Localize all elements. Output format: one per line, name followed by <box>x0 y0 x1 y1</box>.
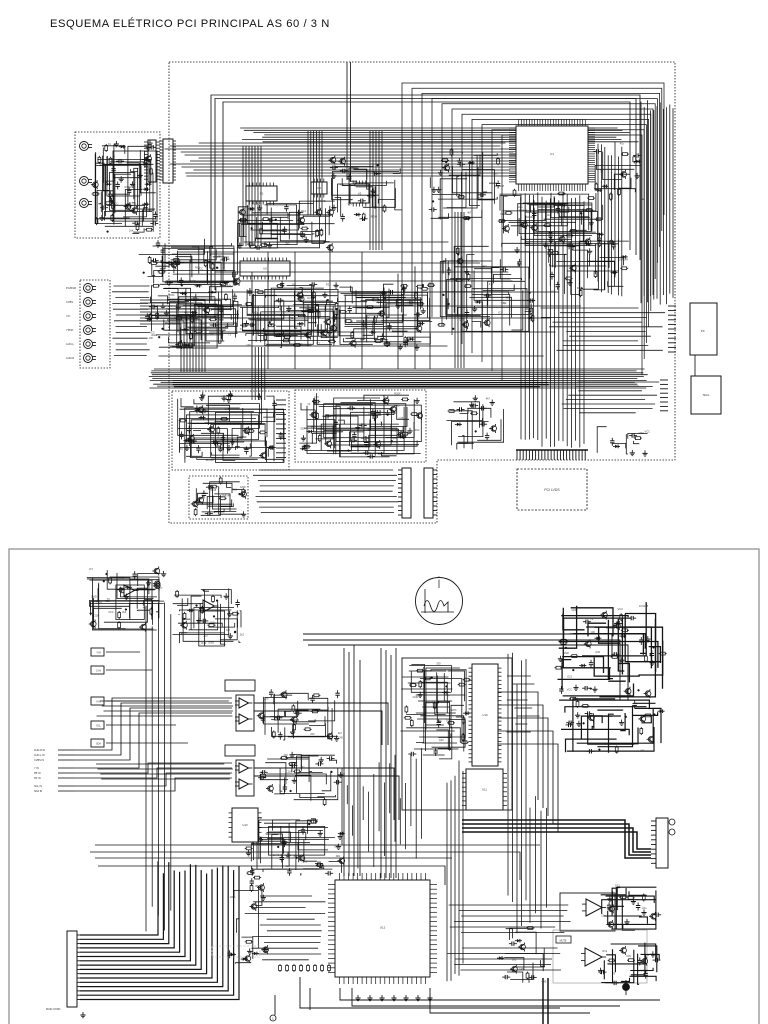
wire <box>128 146 148 207</box>
wire <box>264 697 309 724</box>
wire <box>152 265 155 276</box>
value label <box>240 632 245 636</box>
wire <box>195 496 213 503</box>
capacitor C13 <box>567 241 571 249</box>
wire <box>94 608 122 623</box>
svg-text:GND: GND <box>91 594 97 598</box>
capacitor C31 <box>360 217 368 221</box>
value label <box>300 427 305 431</box>
wire <box>99 583 126 629</box>
wire <box>87 578 130 620</box>
capacitor C113 <box>117 588 125 592</box>
wire <box>297 756 319 793</box>
ground <box>598 968 603 974</box>
wire <box>454 402 480 428</box>
wire <box>356 298 374 314</box>
filter components <box>404 662 471 759</box>
wire <box>228 409 284 440</box>
wire <box>298 315 330 317</box>
wire <box>233 489 243 491</box>
wire <box>607 955 645 964</box>
resistor R192 <box>627 896 635 899</box>
wire <box>172 239 205 255</box>
capacitor C15 <box>556 206 560 214</box>
wire <box>251 844 286 862</box>
transistor Q74 <box>243 954 250 963</box>
wire <box>153 246 234 281</box>
transistor Q69 <box>587 713 594 722</box>
value label <box>348 201 353 205</box>
wire <box>272 727 338 736</box>
wire <box>221 604 226 644</box>
wire bus mid down <box>252 347 265 400</box>
wire <box>308 700 335 721</box>
wire <box>564 618 632 641</box>
capacitor C20 <box>457 162 465 166</box>
node N61 <box>308 823 310 825</box>
value label <box>332 167 337 171</box>
wire <box>492 268 500 295</box>
wire bus left vertical <box>146 603 171 932</box>
capacitor C46 <box>233 293 237 301</box>
transistor Q38 <box>187 434 194 443</box>
wire <box>248 301 284 319</box>
resistor R13 <box>498 220 506 223</box>
wire <box>371 410 381 415</box>
wire <box>316 429 398 436</box>
transistor Q31 <box>461 320 468 329</box>
wire <box>164 320 226 331</box>
lower right components <box>597 427 650 457</box>
resistor R145 <box>311 710 319 713</box>
resistor R48 <box>211 263 214 271</box>
wire <box>429 177 431 187</box>
wire <box>343 316 377 318</box>
resistor R103 <box>455 279 463 282</box>
wire <box>307 306 326 331</box>
resistor R21 <box>595 218 603 221</box>
diode D53 <box>252 952 259 956</box>
wire <box>175 257 192 278</box>
resistor R100 <box>437 323 445 326</box>
wire <box>588 623 606 636</box>
value label <box>512 958 517 962</box>
wire <box>278 709 320 733</box>
wire <box>187 316 227 327</box>
diode D4 <box>105 182 112 186</box>
wire <box>281 826 310 843</box>
resistor R184 <box>245 847 253 850</box>
node N12 <box>181 284 183 286</box>
diode D55 <box>515 939 522 943</box>
transistor Q75 <box>257 883 264 892</box>
CN21 pins <box>77 935 80 1000</box>
diode D21 <box>182 328 189 332</box>
transistor Q22 <box>296 291 303 300</box>
svg-text:AUD-L: AUD-L <box>66 342 74 346</box>
svg-text:C45: C45 <box>542 980 547 984</box>
wire <box>235 447 239 450</box>
resistor R174 <box>570 655 578 658</box>
capacitor C122 <box>335 690 339 698</box>
value label <box>439 738 444 742</box>
wire <box>185 442 244 463</box>
input staircase bus <box>74 698 232 791</box>
wire <box>252 213 288 220</box>
ground <box>464 269 469 275</box>
U2 area components <box>237 199 334 252</box>
signal label box 2 <box>91 666 152 674</box>
value label <box>459 318 464 322</box>
wire <box>649 647 661 663</box>
svg-text:G: G <box>438 575 441 579</box>
value label <box>273 853 283 857</box>
wire <box>211 310 232 311</box>
value label <box>122 610 127 614</box>
wire <box>271 208 311 235</box>
ground <box>196 618 201 624</box>
wire <box>247 314 305 326</box>
resistor R75 <box>256 291 264 294</box>
wire <box>186 289 238 334</box>
wire <box>335 197 341 216</box>
wire <box>329 760 336 763</box>
wire <box>510 928 534 940</box>
wire <box>635 708 662 743</box>
ground <box>630 450 635 456</box>
wire <box>305 309 333 313</box>
resistor R101 <box>530 307 533 315</box>
wire <box>572 230 587 233</box>
wire <box>148 145 154 147</box>
svg-text:SCL IN: SCL IN <box>34 785 42 788</box>
wire <box>435 152 463 154</box>
wire <box>96 152 122 224</box>
capacitor C30 <box>341 214 345 222</box>
resistor R125 <box>194 508 197 516</box>
wire <box>233 301 238 319</box>
capacitor C129 <box>260 770 268 774</box>
resistor R111 <box>214 443 222 446</box>
wire <box>294 768 338 800</box>
wire <box>159 315 223 317</box>
wire <box>265 205 297 225</box>
wire <box>303 206 330 216</box>
wire <box>296 719 316 721</box>
capacitor C100 <box>375 410 379 418</box>
transistor Q42 <box>309 410 316 419</box>
wire <box>132 203 135 205</box>
capacitor C35 <box>165 281 173 285</box>
wire <box>148 256 163 277</box>
painel connector pins <box>668 306 676 352</box>
transistor Q8 <box>530 223 537 232</box>
wire <box>227 481 232 487</box>
value label <box>246 343 251 347</box>
diode D38 <box>300 447 307 451</box>
node N9 <box>377 164 379 166</box>
diode D26 <box>418 322 425 326</box>
wire <box>556 262 614 265</box>
resistor R86 <box>345 320 353 323</box>
diode D52 <box>241 957 248 961</box>
wire <box>378 422 414 454</box>
resistor R129 <box>470 412 478 415</box>
wire <box>215 408 275 422</box>
transistor Q51 <box>489 424 496 433</box>
wire <box>269 832 291 842</box>
ground <box>146 145 151 151</box>
wire <box>210 482 240 515</box>
value label <box>377 300 382 304</box>
ground <box>124 594 129 600</box>
svg-text:Y IN: Y IN <box>34 767 39 770</box>
wire <box>265 763 286 785</box>
wire <box>174 595 221 598</box>
ground <box>650 951 655 957</box>
ground <box>398 344 403 350</box>
wire <box>454 263 518 267</box>
node N17 <box>270 324 272 326</box>
value label <box>225 407 230 411</box>
wire <box>303 640 620 700</box>
wire <box>550 264 607 266</box>
label CN21 <box>46 1008 86 1018</box>
wire <box>515 948 544 967</box>
wire bus to painel <box>541 308 666 350</box>
wire <box>374 316 387 340</box>
wire <box>440 179 467 220</box>
wire <box>180 444 230 452</box>
diode D17 <box>195 284 202 288</box>
wire <box>342 288 384 314</box>
wire <box>315 707 328 710</box>
wire <box>324 427 403 431</box>
IC U5 <box>240 258 290 280</box>
value label <box>143 606 148 610</box>
wire <box>292 763 297 773</box>
wire loop <box>422 93 660 308</box>
diode D8 <box>595 188 602 192</box>
resistor R7 <box>111 214 114 222</box>
resistor R166 <box>433 701 436 709</box>
capacitor C57 <box>380 333 384 341</box>
wire <box>312 433 336 444</box>
wire <box>459 411 468 443</box>
ground <box>221 395 226 401</box>
svg-text:R12: R12 <box>415 428 420 432</box>
value label <box>304 860 308 864</box>
wire <box>321 324 338 338</box>
capacitor C21 <box>478 193 486 197</box>
transistor Q17 <box>329 156 336 165</box>
wire <box>527 204 561 226</box>
resistor R15 <box>569 230 577 233</box>
capacitor C159 <box>599 970 607 974</box>
wire <box>450 720 465 738</box>
diode D18 <box>190 311 197 315</box>
capacitor C111 <box>610 438 614 446</box>
wire <box>354 295 402 312</box>
wire <box>265 319 312 345</box>
resistor R18 <box>587 197 595 200</box>
ground <box>228 633 233 639</box>
signal label box 5 <box>91 739 188 747</box>
wire <box>420 679 462 718</box>
wire <box>178 623 222 627</box>
wire <box>608 924 623 928</box>
wire <box>287 285 312 298</box>
wire <box>352 425 392 445</box>
transistor Q64 <box>584 639 591 648</box>
resistor R90 <box>372 298 380 301</box>
wire <box>440 306 490 317</box>
ground <box>570 244 575 250</box>
ground <box>473 395 478 401</box>
ground <box>367 995 372 1001</box>
value label <box>107 597 111 601</box>
resistor R156 <box>416 669 424 672</box>
wire <box>171 247 210 268</box>
wire <box>587 261 614 286</box>
wire <box>260 774 288 780</box>
resistor R70 <box>316 304 319 312</box>
transistor Q26 <box>297 294 304 303</box>
resistor R142 <box>292 704 295 712</box>
wire <box>559 700 649 709</box>
resistor R79 <box>264 333 267 341</box>
wire <box>376 410 419 445</box>
wire <box>630 976 657 981</box>
wire <box>181 599 183 625</box>
ground <box>607 896 612 902</box>
wire <box>209 287 232 304</box>
resistor R6 <box>136 223 139 231</box>
wire <box>263 869 332 872</box>
wire <box>202 509 225 512</box>
svg-text:SCL: SCL <box>96 725 101 728</box>
wire <box>280 768 282 791</box>
value label <box>371 190 376 194</box>
capacitor C41 <box>221 257 229 261</box>
wire <box>505 954 543 972</box>
wire <box>99 584 165 601</box>
capacitor C104 <box>205 511 213 515</box>
capacitor C10 <box>148 145 156 149</box>
connector AV4 <box>66 326 96 335</box>
resistor R92 <box>401 288 404 296</box>
node N42 <box>203 590 205 592</box>
capacitor C34 <box>347 174 351 182</box>
diode D54 <box>497 956 504 960</box>
diode D16 <box>222 281 229 285</box>
svg-text:100n: 100n <box>210 621 216 625</box>
ground <box>290 729 295 735</box>
ground <box>218 446 223 452</box>
value label <box>283 753 288 757</box>
wire <box>366 299 423 328</box>
resistor R76 <box>293 344 301 347</box>
node N54 <box>565 647 567 649</box>
wire <box>395 180 402 210</box>
wire <box>254 768 399 820</box>
node N15 <box>158 336 160 338</box>
capacitor C62 <box>388 290 396 294</box>
capacitor C105 <box>202 490 206 498</box>
wire <box>329 708 332 738</box>
svg-text:D21: D21 <box>551 210 556 214</box>
input label 1 <box>34 749 74 752</box>
wire <box>177 309 224 315</box>
ground <box>247 948 252 954</box>
capacitor C60 <box>407 300 415 304</box>
wire <box>154 271 236 284</box>
resistor R60 <box>150 316 158 319</box>
node N1 <box>107 231 109 233</box>
svg-text:MAIN CONN: MAIN CONN <box>46 1008 61 1011</box>
wire <box>132 232 139 234</box>
ground <box>355 425 360 431</box>
wire <box>626 434 628 454</box>
resistor R73 <box>276 285 284 288</box>
resistor R36 <box>321 964 324 972</box>
svg-text:VCC: VCC <box>645 430 651 434</box>
wire <box>332 172 399 209</box>
wire <box>252 866 320 869</box>
wire bus U1 to LVDS <box>521 192 584 447</box>
ground <box>99 215 104 221</box>
transistor Q68 <box>647 735 654 744</box>
wire <box>361 301 421 310</box>
capacitor C1 <box>116 181 120 189</box>
diode D13 <box>248 207 255 211</box>
svg-text:U11: U11 <box>482 788 487 792</box>
wire <box>191 420 229 456</box>
wire <box>333 409 391 439</box>
capacitor C132 <box>437 720 441 728</box>
wire bus to A3 <box>97 701 233 716</box>
ground <box>241 511 246 517</box>
wire <box>260 234 305 238</box>
resistor R22 <box>566 234 574 237</box>
CN20 pins <box>651 821 656 863</box>
capacitor C22 <box>429 207 437 211</box>
value label <box>392 436 397 440</box>
wire <box>267 833 306 841</box>
wire <box>92 577 156 630</box>
transistor Q80 <box>619 946 626 955</box>
wire <box>613 891 625 906</box>
wire <box>296 710 309 714</box>
wire <box>606 896 655 903</box>
transistor Q63 <box>624 687 631 696</box>
ground <box>257 393 262 399</box>
ground <box>176 304 181 310</box>
wire <box>275 988 310 1015</box>
bottom panel border <box>9 549 759 1024</box>
svg-text:CVBS IN: CVBS IN <box>34 759 44 762</box>
resistor R139 <box>231 612 239 615</box>
ground <box>146 580 151 586</box>
resistor R159 <box>409 684 417 687</box>
resistor R34 <box>497 157 500 165</box>
wire <box>102 146 125 154</box>
value label <box>301 209 306 213</box>
capacitor C163 <box>638 957 642 965</box>
value label <box>352 165 357 169</box>
wire <box>237 919 240 933</box>
value label <box>606 626 616 630</box>
